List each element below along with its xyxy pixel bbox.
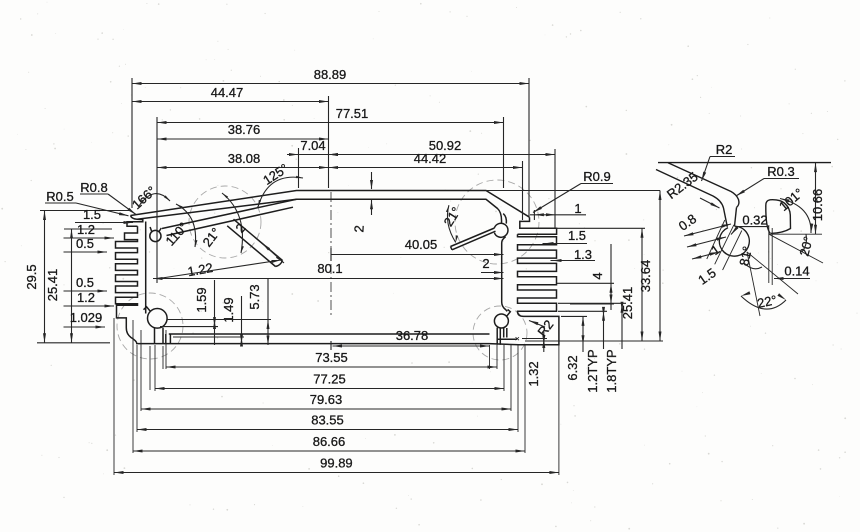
svg-text:1.8TYP: 1.8TYP	[604, 349, 619, 392]
svg-text:7.04: 7.04	[300, 138, 325, 153]
svg-text:2: 2	[482, 256, 489, 271]
svg-text:0.14: 0.14	[784, 264, 809, 279]
svg-text:0.5: 0.5	[76, 236, 94, 251]
svg-text:0.32: 0.32	[742, 213, 767, 228]
svg-text:10.66: 10.66	[810, 189, 825, 222]
svg-text:5.73: 5.73	[247, 284, 262, 309]
svg-text:4: 4	[590, 272, 605, 279]
svg-text:R0.9: R0.9	[583, 169, 610, 184]
svg-text:77.25: 77.25	[313, 372, 346, 387]
svg-text:44.47: 44.47	[211, 85, 244, 100]
svg-text:1.029: 1.029	[70, 310, 103, 325]
svg-text:1.5: 1.5	[83, 207, 101, 222]
svg-text:1.3: 1.3	[574, 247, 592, 262]
svg-text:R0.3: R0.3	[767, 164, 794, 179]
svg-text:0.5: 0.5	[76, 275, 94, 290]
svg-text:R0.8: R0.8	[80, 180, 107, 195]
svg-text:1.2: 1.2	[77, 290, 95, 305]
svg-text:1.59: 1.59	[194, 287, 209, 312]
svg-text:33.64: 33.64	[638, 260, 653, 293]
svg-text:R2: R2	[716, 142, 733, 157]
svg-text:1.32: 1.32	[526, 361, 541, 386]
svg-text:99.89: 99.89	[320, 456, 353, 471]
svg-text:29.5: 29.5	[24, 264, 39, 289]
svg-text:25.41: 25.41	[45, 269, 60, 302]
svg-text:2: 2	[351, 225, 366, 233]
svg-text:40.05: 40.05	[405, 237, 438, 252]
svg-text:1: 1	[574, 201, 581, 216]
svg-text:79.63: 79.63	[310, 392, 343, 407]
svg-text:1.49: 1.49	[221, 297, 236, 322]
svg-text:1.2: 1.2	[77, 222, 95, 237]
svg-text:86.66: 86.66	[313, 434, 346, 449]
svg-text:6.32: 6.32	[565, 355, 580, 380]
svg-text:36.78: 36.78	[396, 328, 429, 343]
svg-text:88.89: 88.89	[314, 67, 347, 82]
svg-text:77.51: 77.51	[336, 106, 369, 121]
svg-text:73.55: 73.55	[315, 350, 348, 365]
svg-text:R0.5: R0.5	[46, 189, 73, 204]
svg-text:80.1: 80.1	[317, 261, 342, 276]
svg-text:83.55: 83.55	[311, 413, 344, 428]
svg-text:38.76: 38.76	[228, 122, 261, 137]
svg-text:1.5: 1.5	[568, 228, 586, 243]
svg-text:1.2TYP: 1.2TYP	[585, 349, 600, 392]
svg-text:38.08: 38.08	[228, 151, 261, 166]
svg-text:44.42: 44.42	[414, 151, 447, 166]
